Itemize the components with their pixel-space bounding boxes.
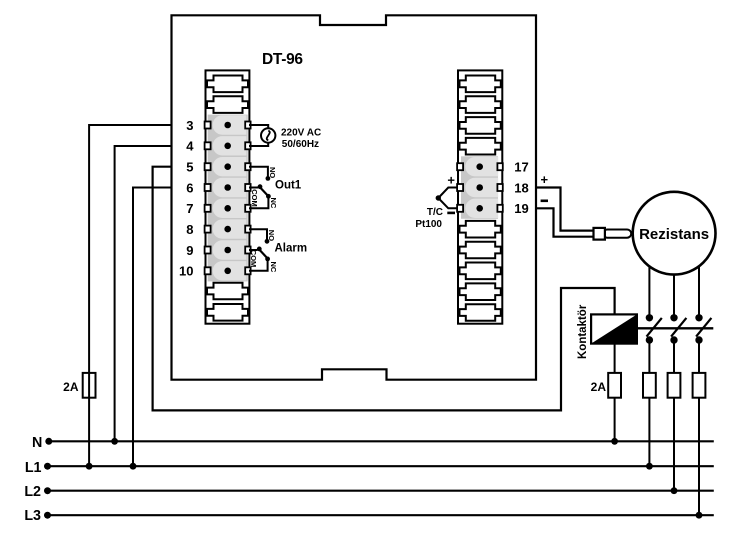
terminal 7 left tab	[205, 205, 211, 212]
svg-text:2A: 2A	[63, 380, 79, 394]
terminal block left (terminals 3-10) outer body	[206, 70, 250, 323]
wire L1 to terminal 6 (COM)	[133, 188, 172, 467]
terminal 5 left tab	[205, 163, 211, 170]
wire - output (terminal 19) to probe	[536, 208, 594, 236]
terminal block right empty slot 8	[460, 283, 501, 300]
probe connector square	[594, 228, 605, 240]
wire N to terminal 4	[115, 146, 172, 441]
rail start dot L1	[44, 463, 51, 470]
svg-text:N: N	[32, 435, 42, 451]
svg-text:+: +	[447, 173, 455, 188]
terminal 17 right tab	[497, 163, 502, 170]
terminal 18 right tab	[497, 184, 502, 191]
wire terminal4 to AC source	[249, 143, 268, 146]
terminal block right empty slot 9	[460, 304, 501, 321]
terminal 10 left tab	[205, 267, 211, 274]
terminal block right empty slot 7	[460, 263, 501, 280]
svg-text:2A: 2A	[591, 380, 607, 394]
terminal 9 screw dot	[224, 247, 231, 254]
Alarm NC contact dot	[265, 257, 270, 262]
svg-text:Pt100: Pt100	[415, 219, 442, 230]
rail line L1	[48, 465, 714, 467]
terminal block right empty slot 2	[460, 96, 501, 113]
contact blade L3	[696, 318, 711, 337]
terminal block right empty slot 6	[460, 242, 501, 259]
label - (output)	[541, 200, 548, 203]
junction dot terminal4 wire on N	[111, 438, 118, 445]
terminal 19 right tab	[497, 205, 502, 212]
terminal 4 screw dot	[224, 143, 231, 150]
Out1 NO contact dot	[266, 176, 271, 181]
terminal 9 right tab	[245, 247, 250, 254]
terminal block right (terminals 17-19) outer body	[458, 70, 502, 323]
terminal 8 screw dot	[224, 226, 231, 233]
junction dot L1 rail	[646, 463, 653, 470]
svg-text:3: 3	[186, 118, 193, 133]
junction dot coil on N	[611, 438, 618, 445]
terminal 19 left tab	[457, 205, 463, 212]
svg-text:5: 5	[186, 160, 193, 175]
rail start dot L2	[44, 487, 51, 494]
Out1 blade	[260, 187, 269, 196]
contact top dot L2	[670, 314, 677, 321]
T/C wire to terminal 18	[438, 188, 457, 199]
terminal 6 screw dot	[224, 184, 231, 191]
wire heater to contact L2	[673, 275, 675, 318]
terminal block left empty slot 2	[207, 96, 248, 113]
terminal 17 gray cell	[465, 157, 498, 176]
heater circle Rezistans	[633, 192, 716, 275]
terminal block left empty slot 1	[207, 76, 248, 93]
svg-text:19: 19	[514, 201, 528, 216]
svg-text:COM: COM	[249, 250, 258, 267]
wire terminal3 to AC source	[249, 125, 268, 128]
terminal 8 left tab	[205, 226, 211, 233]
junction dot L2 rail	[671, 487, 678, 494]
svg-text:Rezistans: Rezistans	[639, 226, 709, 243]
terminal 9 left tab	[205, 247, 211, 254]
Alarm NO lead from terminal 8	[249, 229, 267, 239]
terminal 18 left tab	[457, 184, 463, 191]
rail start dot L3	[44, 512, 51, 519]
fuse L3	[693, 373, 706, 398]
wire terminal 5 (Out1 NO) around device to contactor coil	[153, 167, 615, 411]
junction dot supply fuse on L1	[86, 463, 93, 470]
terminal 17 left tab	[457, 163, 463, 170]
terminal block right gray connector body	[461, 156, 498, 219]
linkage bar of contactor contacts	[637, 327, 713, 329]
wire contact to fuse L3	[698, 340, 700, 373]
svg-text:18: 18	[514, 180, 528, 195]
terminal block right empty slot 4	[460, 138, 501, 155]
terminal 5 right tab	[245, 163, 250, 170]
svg-text:NO: NO	[268, 167, 277, 178]
terminal 18 screw dot	[476, 184, 483, 191]
terminal 4 right tab	[245, 142, 250, 149]
T/C wire to terminal 19	[438, 198, 457, 208]
terminal block right empty slot 3	[460, 117, 501, 134]
wire coil fuse to N rail	[614, 398, 616, 442]
terminal 3 gray cell	[213, 115, 247, 134]
Out1 NO lead from terminal 5	[249, 167, 268, 177]
svg-text:NO: NO	[267, 230, 276, 241]
svg-text:DT-96: DT-96	[262, 51, 303, 68]
terminal 7 screw dot	[224, 205, 231, 212]
contact bottom dot L1	[646, 336, 653, 343]
wire + output (terminal 18) to probe	[536, 188, 594, 231]
fuse 2A (coil)	[608, 373, 621, 398]
terminal 7 right tab	[245, 205, 250, 212]
terminal block right empty slot 5	[460, 221, 501, 238]
wire heater to contact L1	[648, 266, 650, 317]
svg-text:Alarm: Alarm	[275, 242, 308, 254]
svg-text:NC: NC	[269, 262, 278, 273]
rail line L2	[48, 490, 714, 492]
Alarm NC lead from terminal 10	[249, 261, 268, 271]
contact blade L2	[671, 318, 686, 337]
terminal 10 right tab	[245, 267, 250, 274]
terminal 4 left tab	[205, 142, 211, 149]
terminal 9 gray cell	[213, 240, 247, 259]
svg-text:10: 10	[179, 264, 193, 279]
Out1 NC lead from terminal 7	[249, 198, 268, 208]
svg-text:6: 6	[186, 180, 193, 195]
wire coil to fuse	[614, 344, 616, 373]
wire fuse to rail L1	[648, 398, 650, 467]
terminal 3 right tab	[245, 122, 250, 129]
contactor coil box	[591, 314, 637, 343]
terminal 3 screw dot	[224, 122, 231, 129]
wire contact to fuse L2	[673, 340, 675, 373]
rail start dot N	[45, 438, 52, 445]
Out1 COM lead from terminal 6	[249, 187, 258, 189]
svg-text:+: +	[541, 172, 549, 187]
wire heater to contact L3	[698, 266, 700, 318]
Alarm COM lead from terminal 9	[249, 249, 257, 251]
terminal 5 screw dot	[224, 163, 231, 170]
Alarm COM pivot dot	[257, 247, 262, 252]
svg-text:L3: L3	[24, 508, 41, 524]
junction dot terminal6 wire on L1	[130, 463, 137, 470]
Out1 NC contact dot	[266, 194, 271, 199]
terminal block left empty slot 4	[207, 304, 248, 321]
rail line N	[49, 440, 714, 442]
svg-text:8: 8	[186, 222, 193, 237]
terminal 19 gray cell	[465, 199, 498, 218]
contactor coil box black triangle	[591, 314, 637, 343]
contact bottom dot L3	[695, 336, 702, 343]
terminal 6 left tab	[205, 184, 211, 191]
junction dot L3 rail	[696, 512, 703, 519]
Alarm blade	[259, 249, 268, 258]
contact top dot L3	[695, 314, 702, 321]
wire fuse to rail L3	[698, 398, 700, 516]
terminal 19 screw dot	[476, 205, 483, 212]
terminal 8 right tab	[245, 226, 250, 233]
svg-text:L1: L1	[25, 460, 42, 476]
probe rod	[603, 230, 631, 238]
svg-text:Kontaktör: Kontaktör	[577, 304, 589, 359]
svg-text:Out1: Out1	[275, 179, 302, 191]
DT-96 controller outline frame	[172, 15, 537, 379]
svg-text:7: 7	[186, 201, 193, 216]
Alarm NO contact dot	[265, 239, 270, 244]
terminal 6 gray cell	[213, 178, 247, 197]
wire L1 via fuse to terminal 3	[89, 125, 172, 466]
contact bottom dot L2	[670, 336, 677, 343]
contact top dot L1	[646, 314, 653, 321]
terminal 17 screw dot	[476, 163, 483, 170]
AC source circle symbol	[261, 128, 275, 142]
terminal 4 gray cell	[213, 136, 247, 155]
svg-text:COM: COM	[250, 189, 259, 207]
terminal 5 gray cell	[213, 157, 247, 176]
svg-text:220V AC: 220V AC	[281, 128, 321, 139]
terminal block right empty slot 1	[460, 76, 501, 93]
fuse 2A (supply)	[83, 373, 96, 398]
terminal 3 left tab	[205, 122, 211, 129]
Out1 COM pivot dot	[258, 184, 263, 189]
terminal 6 right tab	[245, 184, 250, 191]
fuse L2	[668, 373, 681, 398]
wire fuse to rail L2	[673, 398, 675, 491]
svg-text:50/60Hz: 50/60Hz	[282, 139, 319, 150]
svg-text:NC: NC	[269, 198, 278, 209]
svg-text:9: 9	[186, 243, 193, 258]
svg-text:17: 17	[514, 160, 528, 175]
terminal 10 gray cell	[213, 261, 247, 280]
terminal 18 gray cell	[465, 178, 498, 197]
svg-text:4: 4	[186, 139, 194, 154]
rail line L3	[48, 514, 714, 516]
svg-text:L2: L2	[24, 484, 41, 500]
terminal 10 screw dot	[224, 268, 231, 275]
AC sine squiggle	[267, 131, 270, 141]
T/C sensor junction dot	[436, 195, 441, 200]
wire contact to fuse L1	[648, 340, 650, 373]
fuse L1	[643, 373, 656, 398]
label - (sensor)	[447, 212, 455, 215]
terminal block left empty slot 3	[207, 283, 248, 300]
svg-text:T/C: T/C	[427, 207, 443, 218]
terminal block left gray connector body	[208, 115, 248, 282]
terminal 8 gray cell	[213, 219, 247, 238]
terminal 7 gray cell	[213, 199, 247, 218]
contact blade L1	[647, 318, 662, 337]
